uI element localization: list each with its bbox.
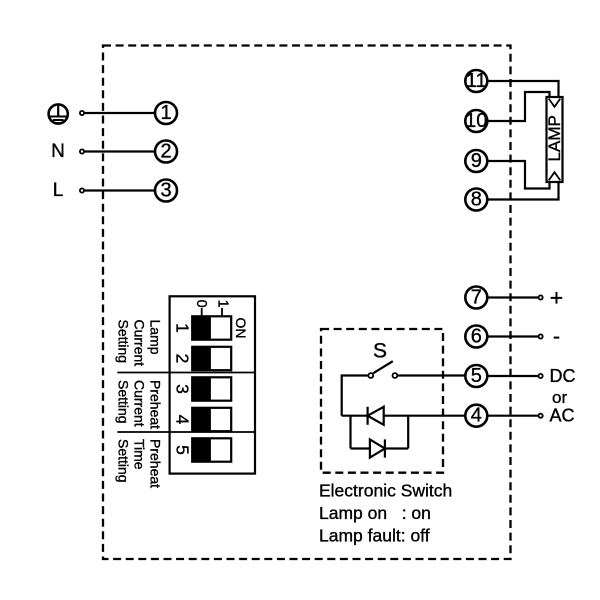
svg-text:Current: Current (132, 320, 148, 367)
svg-text:Preheat: Preheat (147, 439, 163, 488)
diode D2 (pointing right) (370, 439, 385, 457)
svg-text:6: 6 (471, 326, 482, 348)
label Preheat Current Setting (rotated) (115, 380, 163, 429)
wire switch to terminal 5 (398, 374, 466, 376)
ground symbol (protective earth) (49, 104, 68, 123)
svg-text:2: 2 (160, 141, 171, 163)
parallel branch left wire (349, 416, 351, 449)
svg-text:4: 4 (172, 415, 192, 425)
terminal 2 (155, 141, 177, 163)
DIP switch 4 slider (192, 408, 231, 431)
svg-text:S: S (373, 340, 387, 363)
terminal 9 (465, 150, 487, 172)
separator line between setting groups 2-3 (117, 431, 255, 433)
lamp filament top (549, 99, 561, 107)
svg-text:4: 4 (471, 405, 482, 427)
terminal dot - (539, 334, 543, 338)
terminal 7 (465, 287, 487, 309)
DIP tick under 1 (221, 308, 223, 316)
wire N to terminal 2 (84, 150, 155, 152)
svg-text:10: 10 (465, 110, 487, 132)
svg-text:Time: Time (132, 439, 148, 470)
svg-text:Lamp on : on: Lamp on : on (319, 503, 431, 523)
lamp filament bottom (549, 172, 561, 180)
DIP switch body (170, 296, 255, 473)
svg-text:2: 2 (172, 354, 192, 364)
svg-text:9: 9 (471, 150, 482, 172)
svg-text:DC: DC (550, 366, 576, 386)
wire diode branch to terminal 4 (342, 415, 466, 417)
wire terminal 4 to AC (488, 415, 539, 417)
terminal dot N (80, 149, 84, 153)
terminal 1 (155, 102, 177, 124)
terminal dot DC (539, 374, 543, 378)
svg-text:Lamp fault: off: Lamp fault: off (319, 525, 430, 545)
svg-text:3: 3 (160, 180, 171, 202)
wire terminal 11 to lamp top right pin (488, 81, 559, 96)
wire L to terminal 3 (84, 189, 155, 191)
svg-text:Setting: Setting (115, 380, 131, 424)
terminal 3 (155, 180, 177, 202)
svg-text:+: + (550, 285, 563, 311)
terminal dot AC (539, 414, 543, 418)
terminal 8 (465, 189, 487, 211)
wire terminal 9 to lamp bottom left pin (488, 161, 550, 189)
terminal 6 (465, 326, 487, 348)
svg-text:Lamp: Lamp (147, 320, 163, 355)
wire terminal 7 to + (488, 296, 539, 298)
terminal 10 (465, 110, 487, 132)
svg-text:or: or (552, 388, 567, 407)
svg-text:1: 1 (214, 300, 230, 308)
svg-text:AC: AC (550, 406, 575, 426)
svg-text:1: 1 (172, 323, 192, 333)
svg-text:Preheat: Preheat (147, 380, 163, 429)
svg-text:Current: Current (132, 380, 148, 427)
svg-text:Setting: Setting (115, 439, 131, 483)
terminal dot PE (80, 111, 84, 115)
wire terminal 10 to lamp top left pin (488, 92, 550, 121)
wire terminal 6 to - (488, 335, 539, 337)
svg-text:7: 7 (471, 287, 482, 309)
label Preheat Time Setting (rotated) (115, 439, 163, 488)
terminal dot L (80, 188, 84, 192)
DIP switch 3 slider (192, 377, 231, 400)
terminal 4 (465, 405, 487, 427)
terminal 5 (465, 365, 487, 387)
svg-text:ON: ON (233, 318, 249, 339)
terminal 11 (465, 70, 487, 92)
wire PE to terminal 1 (84, 112, 155, 114)
svg-text:Setting: Setting (115, 320, 131, 364)
switch S left contact (368, 373, 373, 378)
svg-text:-: - (553, 325, 560, 348)
svg-text:5: 5 (471, 365, 482, 387)
label Lamp Current Setting (rotated) (115, 320, 163, 367)
svg-text:Electronic Switch: Electronic Switch (319, 481, 452, 501)
svg-text:L: L (53, 180, 64, 201)
svg-text:1: 1 (160, 102, 171, 124)
wire terminal 8 to lamp bottom right pin (488, 183, 559, 200)
main dashed enclosure (ballast outline) (103, 46, 511, 560)
parallel branch bottom wire (351, 447, 409, 449)
DIP switch 1 slider (192, 316, 231, 339)
electronic switch dashed box (321, 329, 443, 473)
terminal dot + (539, 295, 543, 299)
lamp body (547, 97, 563, 182)
wire switch left contact down to diode branch (342, 376, 369, 416)
svg-text:LAMP: LAMP (545, 115, 564, 161)
separator line between setting groups 1-2 (117, 372, 255, 374)
DIP switch 5 slider (192, 438, 231, 461)
svg-text:11: 11 (466, 70, 487, 92)
svg-text:5: 5 (172, 445, 192, 455)
svg-text:N: N (51, 141, 65, 162)
DIP tick under 0 (201, 308, 203, 316)
diode D1 (pointing left) (368, 407, 384, 425)
svg-text:0: 0 (193, 300, 209, 308)
DIP switch 2 slider (192, 347, 231, 370)
svg-text:3: 3 (172, 384, 192, 394)
svg-text:8: 8 (471, 189, 482, 211)
parallel branch right wire (407, 416, 409, 449)
wire terminal 5 to DC (488, 375, 539, 377)
switch S blade (373, 361, 393, 373)
switch S right contact (393, 373, 398, 378)
